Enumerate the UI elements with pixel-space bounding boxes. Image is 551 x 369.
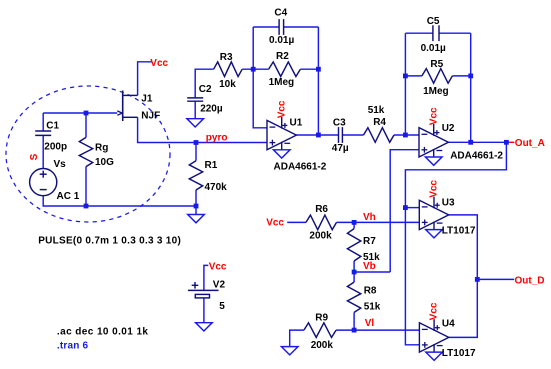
svg-text:200p: 200p [44, 142, 67, 153]
wire R3 right lead [242, 68, 268, 70]
wire C5 top left [405, 32, 433, 34]
wire J1 drain to Vcc [138, 62, 152, 96]
svg-text:V2: V2 [213, 280, 226, 291]
wire C5/R5 right column to U2 output [470, 33, 472, 142]
svg-text:0.01µ: 0.01µ [421, 43, 446, 54]
ground below R1 [188, 215, 205, 223]
svg-text:47µ: 47µ [332, 143, 349, 154]
wire Vs bottom to rail [42, 196, 44, 207]
svg-text:R2: R2 [276, 51, 289, 62]
svg-text:.ac dec 10 0.01 1k: .ac dec 10 0.01 1k [57, 326, 149, 337]
wire C2 top lead from R3 row [195, 69, 213, 98]
junction Vh node [352, 220, 357, 225]
op-amp U3 comparator [419, 200, 448, 229]
junction pyro node [194, 140, 199, 145]
svg-text:Rg: Rg [95, 143, 108, 154]
resistor R4 [364, 128, 395, 143]
wire Vcc to R6 [287, 221, 306, 223]
svg-text:1Meg: 1Meg [423, 86, 449, 97]
wire C3 to R4 [342, 134, 363, 136]
resistor R8 [347, 282, 360, 312]
junction C1-Rg-gate [84, 111, 89, 116]
wire R1 top lead [195, 143, 197, 161]
svg-text:51k: 51k [364, 302, 381, 313]
junction Rg bottom rail [84, 204, 89, 209]
svg-text:R7: R7 [363, 236, 376, 247]
junction U3 input on signal column [403, 205, 408, 210]
wire Vh row to U3 noninverting input [354, 221, 419, 223]
wire R4 right lead to U2 inverting input [394, 134, 419, 136]
svg-text:LT1017: LT1017 [442, 225, 476, 236]
resistor R7 [347, 229, 360, 261]
svg-text:200k: 200k [311, 340, 334, 351]
wire R8 top lead [353, 272, 355, 282]
svg-text:C5: C5 [427, 16, 440, 27]
svg-text:J1: J1 [141, 93, 153, 104]
junction R2 right [316, 67, 321, 72]
wire C1 top lead [42, 113, 44, 131]
voltage source V2 battery [188, 289, 219, 291]
node Out_A label [510, 141, 515, 143]
wire C4 top right [284, 26, 319, 28]
wire R5 left lead [405, 75, 422, 77]
svg-text:Out_A: Out_A [515, 138, 545, 149]
wire R5 right lead [452, 75, 470, 77]
svg-text:C2: C2 [199, 84, 212, 95]
svg-text:U1: U1 [290, 118, 303, 129]
voltage source Vs [30, 169, 57, 196]
wire C2 bottom lead to ground [194, 101, 196, 119]
wire C4 top left [253, 26, 279, 28]
svg-text:C1: C1 [46, 121, 59, 132]
wire R9 right lead to Vl [336, 329, 354, 331]
wire C5 top right [439, 32, 471, 34]
svg-text:Vcc: Vcc [276, 100, 287, 118]
svg-text:10k: 10k [219, 79, 236, 90]
wire Rg bottom lead [85, 167, 87, 206]
junction Vl node [352, 328, 357, 333]
wire signal column to U3 inverting input [405, 207, 419, 209]
svg-text:Vl: Vl [365, 318, 375, 329]
sensor enclosure dashed circle [6, 86, 170, 222]
svg-text:R3: R3 [220, 52, 233, 63]
junction R1 bottom [194, 204, 199, 209]
resistor R2 [269, 62, 301, 77]
resistor R3 [214, 62, 243, 77]
svg-text:ADA4661-2: ADA4661-2 [274, 161, 327, 172]
svg-text:200k: 200k [309, 230, 332, 241]
svg-text:1Meg: 1Meg [269, 77, 295, 88]
svg-text:LT1017: LT1017 [442, 348, 476, 359]
svg-text:Vcc: Vcc [266, 218, 284, 229]
wire C4 right column to U1 output [317, 27, 319, 135]
wire R2 right lead [300, 68, 318, 70]
svg-text:Vs: Vs [54, 159, 67, 170]
wire U3 output to Out_D column [449, 215, 478, 338]
ground below C2 [187, 119, 204, 127]
svg-text:.tran 6: .tran 6 [57, 340, 89, 351]
ground at R9 [281, 347, 298, 355]
wire R9 ground drop [290, 330, 304, 347]
junction U2 output [468, 140, 473, 145]
svg-text:S: S [29, 153, 40, 160]
junction U1 output [316, 133, 321, 138]
svg-text:51k: 51k [368, 105, 385, 116]
wire Vb row [354, 271, 390, 273]
resistor R5 [422, 69, 453, 84]
wire Out_A down-jog to signal column [405, 142, 506, 344]
junction Out_D node [475, 277, 480, 282]
wire V2 top to Vcc label [204, 265, 208, 290]
svg-text:U4: U4 [442, 319, 455, 330]
wire R4 node up to R5/C5 loop [404, 33, 406, 135]
ground below V2 [196, 323, 213, 331]
svg-text:C3: C3 [333, 118, 346, 129]
svg-text:R1: R1 [205, 160, 218, 171]
svg-text:R4: R4 [373, 117, 386, 128]
svg-text:PULSE(0 0.7m 1 0.3 0.3 3 10): PULSE(0 0.7m 1 0.3 0.3 3 10) [38, 236, 181, 247]
junction Vb node [352, 270, 357, 275]
svg-text:10G: 10G [95, 157, 114, 168]
resistor Rg [79, 137, 92, 166]
wire R8 bottom lead to Vl [353, 312, 355, 330]
wire J1 source to pyro row [138, 117, 267, 142]
svg-text:pyro: pyro [206, 132, 228, 143]
junction R5 left [403, 74, 408, 79]
svg-text:220µ: 220µ [200, 104, 223, 115]
capacitor C2 [187, 97, 203, 99]
wire V2 bottom to ground [203, 298, 205, 323]
wire R7 top lead [353, 222, 355, 228]
wire R6 right lead to Vh [337, 221, 355, 223]
junction R5 right [468, 74, 473, 79]
svg-text:Vcc: Vcc [429, 180, 440, 198]
capacitor C4 [278, 19, 280, 35]
wire C1 bottom lead to Vs [42, 135, 44, 168]
wire gate row C1-Rg-J1 [43, 112, 117, 114]
svg-text:Vcc: Vcc [429, 302, 440, 320]
wire Vl row to U4 inverting input [354, 329, 419, 331]
wire U1 output to C3 [296, 134, 338, 136]
svg-text:Out_D: Out_D [515, 276, 545, 287]
svg-text:R8: R8 [364, 285, 377, 296]
svg-text:Vcc: Vcc [150, 58, 168, 69]
svg-text:5: 5 [219, 301, 225, 312]
wire U2 noninverting input to Vb column [390, 150, 419, 272]
wire U2 output to Out_A [448, 141, 509, 143]
capacitor C5 [432, 25, 434, 41]
resistor R6 [306, 215, 337, 230]
svg-text:R5: R5 [430, 59, 443, 70]
svg-text:C4: C4 [274, 8, 287, 19]
op-amp U4 comparator [419, 323, 448, 352]
junction R4-U2 input [403, 133, 408, 138]
svg-text:Vcc: Vcc [428, 107, 439, 125]
wire R7 bottom lead to Vb [353, 261, 355, 272]
junction R3-R2-C4 [251, 67, 256, 72]
svg-text:R9: R9 [315, 313, 328, 324]
resistor R1 [189, 161, 202, 190]
svg-text:Vh: Vh [363, 212, 376, 223]
wire C4 left column to U1 inverting input [253, 27, 267, 128]
op-amp U2 [419, 128, 448, 157]
capacitor C3 [338, 127, 340, 143]
transistor J1 NJF [122, 91, 124, 122]
svg-text:AC 1: AC 1 [57, 191, 80, 202]
wire bottom rail sensor [43, 205, 197, 207]
svg-text:Vcc: Vcc [209, 261, 227, 272]
svg-text:0.01µ: 0.01µ [269, 35, 294, 46]
svg-text:470k: 470k [205, 182, 228, 193]
op-amp U1 [267, 120, 296, 149]
svg-text:U2: U2 [442, 123, 455, 134]
svg-text:ADA4661-2: ADA4661-2 [450, 150, 503, 161]
resistor R9 [304, 323, 336, 338]
wire Out_D node to label [477, 278, 514, 280]
svg-text:NJF: NJF [141, 110, 160, 121]
svg-text:U3: U3 [442, 198, 455, 209]
capacitor C1 [35, 130, 51, 132]
wire Rg top lead [85, 113, 87, 137]
svg-text:R6: R6 [315, 204, 328, 215]
svg-text:Vb: Vb [363, 261, 376, 272]
wire R1 bottom lead [195, 190, 197, 215]
junction Out_A node [504, 140, 509, 145]
